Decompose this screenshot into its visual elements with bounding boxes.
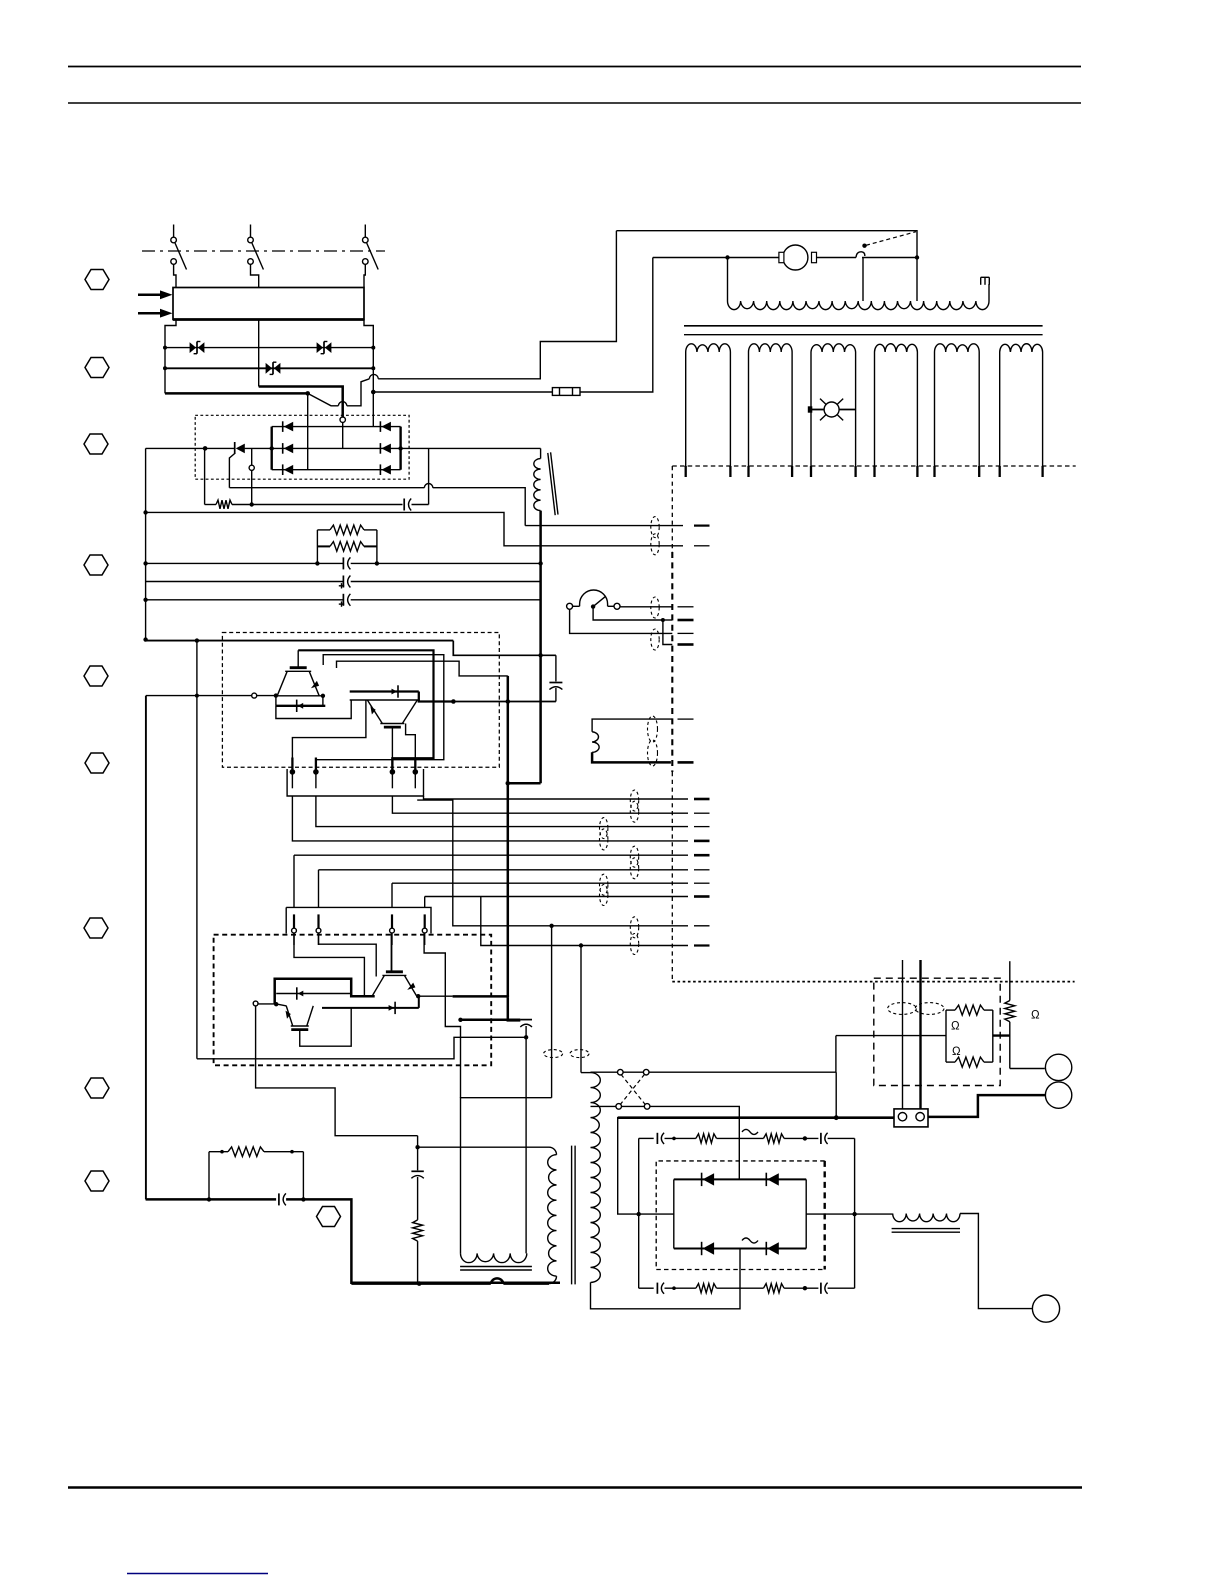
bus cap row 2 electrolytic	[146, 576, 541, 589]
bridge top edge	[674, 1178, 806, 1180]
bridge diode right row y=448.4	[380, 443, 391, 454]
wire cap2 top feed	[508, 997, 521, 1020]
hex reference flag 10	[317, 1207, 341, 1227]
wire lower link	[276, 700, 351, 719]
AC squiggle top	[742, 1129, 758, 1134]
output + path left	[618, 1118, 894, 1214]
twisted pair marker CT1	[648, 716, 658, 766]
current transformer CT1 primary coil	[534, 448, 541, 510]
snubber row bottom	[639, 1283, 855, 1294]
bridge diode left row y=448.4	[283, 443, 294, 454]
bundle wire 10 transformer drive B	[481, 897, 688, 946]
footer rule	[68, 1486, 1082, 1489]
bleed resistor vertical	[1005, 961, 1015, 1068]
hex reference flag 5	[84, 666, 108, 686]
PCB pin mark y=813.2	[694, 812, 710, 814]
rectifier dashed box	[656, 1161, 825, 1270]
PCB pin mark y=855.2	[694, 854, 710, 857]
parallel resistor R1	[317, 525, 377, 563]
PCB pin mark y=525.6	[694, 524, 710, 526]
input arrow 1	[138, 290, 173, 299]
wire pin1 route	[294, 933, 364, 996]
module2 gate input circle	[253, 1001, 278, 1006]
wire thermostat left to pin	[570, 609, 673, 633]
twisted pair marker primary	[544, 1050, 563, 1058]
nest thin to pin2	[316, 655, 444, 772]
bridge left rail	[271, 427, 273, 470]
wire Q3 left to pin1	[292, 700, 366, 771]
IGBT Q5 gate route	[300, 1008, 351, 1046]
bridge diode right row y=426.6	[380, 421, 391, 432]
PCB pin mark y=883.2	[694, 882, 710, 884]
wire W2 to fuse	[373, 391, 552, 393]
wire bottom phase into bridge	[307, 393, 309, 469]
bundle wire 7	[392, 882, 688, 884]
output CT2 coil	[461, 1253, 527, 1262]
control PCB dashed box left edge mid	[671, 552, 673, 772]
wire bus to module	[146, 640, 454, 642]
wire mid phase thick L	[259, 387, 343, 418]
footer link underline	[127, 1573, 268, 1575]
sensor wire B thick	[919, 960, 921, 1113]
wire thermostat right to pin	[620, 606, 672, 608]
sensor wire A thin	[902, 960, 904, 1113]
hex reference flag 3	[84, 434, 108, 454]
bus cap row 1	[146, 557, 543, 569]
bundle wire 8	[425, 896, 688, 898]
current sensor dashed box	[874, 978, 1000, 1085]
module1 gate input circle	[252, 693, 257, 698]
bridge rect rails	[674, 1179, 806, 1248]
winding end to plug	[988, 284, 990, 301]
control PCB dashed box left edge upper	[671, 466, 673, 552]
SCR Q1	[229, 442, 244, 488]
choke L1	[892, 1214, 960, 1233]
bridge diode right row y=469.7	[380, 464, 391, 475]
breaker mechanical link dash-dot	[142, 250, 385, 252]
aux winding 4	[875, 344, 918, 477]
breaker S1 pole 1	[171, 225, 187, 288]
wire pin3 to Q4 gate	[391, 933, 393, 971]
module1 thick output to cap	[419, 700, 453, 702]
IGBT Q2 gate nest thick to pin3	[298, 650, 433, 771]
aux winding 5	[935, 344, 980, 477]
transformer T1 core	[684, 325, 1043, 327]
node dots MOV rows	[163, 346, 167, 350]
wire bus corner to snubber cap top	[453, 641, 556, 656]
wire cap2 bottom tap	[197, 1037, 526, 1059]
bundle wire 6	[319, 869, 689, 871]
output terminal circle 2	[1045, 1082, 1071, 1108]
node dots bridge rails	[270, 446, 274, 450]
wire winding taps	[727, 258, 729, 302]
IGBT Q3 top rail	[350, 699, 419, 701]
aux winding 1	[686, 344, 731, 477]
RC snubber across SCR	[205, 448, 429, 510]
divider resistor pair	[946, 1005, 993, 1067]
wire terminal 2	[928, 1095, 1045, 1117]
wire SCR aux tap with connector circle	[249, 448, 254, 506]
fan winding	[728, 301, 990, 310]
hex reference flag 2	[85, 358, 109, 378]
wire gate feed vertical	[196, 641, 198, 1059]
output terminal circle 1	[1045, 1054, 1071, 1080]
parallel resistor R2	[317, 542, 377, 552]
wire fan mid bus	[653, 257, 779, 259]
aux winding 3	[811, 344, 856, 477]
IGBT module 1 dashed box	[222, 633, 499, 768]
PCB pin mark y=545.8	[694, 545, 710, 547]
bridge bottom edge	[674, 1248, 806, 1250]
bridge right rail	[399, 427, 401, 470]
thermostat TH1	[567, 590, 620, 609]
bundle wire 2	[392, 796, 688, 813]
left bus segment	[164, 348, 166, 394]
RC damper chain across secondary	[411, 1136, 423, 1284]
bridge diode left row y=469.7	[283, 464, 294, 475]
secondary top lead to bus	[835, 1072, 837, 1118]
varistor RV2	[317, 342, 332, 354]
varistor RV3	[266, 362, 281, 374]
left bus 2 upper	[145, 448, 147, 639]
bottom-left damper block	[146, 1193, 560, 1282]
hex reference flag 4	[84, 555, 108, 575]
sensor connector block	[894, 1109, 928, 1127]
diode D1	[276, 700, 325, 712]
T2 secondary winding	[418, 1147, 557, 1283]
wire Q3 collector to pin4	[406, 724, 416, 772]
wire module2 out B thick cap feed	[461, 1019, 521, 1022]
twisted pair marker sense	[651, 517, 659, 538]
X crossover plugs	[591, 1069, 837, 1109]
wire CT1 primary down thick	[539, 511, 542, 784]
PCB pin mark y=633.4	[678, 632, 694, 634]
varistor row 1 wire	[165, 347, 373, 349]
wire to terminal circle 1	[1010, 1068, 1045, 1070]
wire pin2 route	[319, 933, 377, 977]
wire secondary bottom lead with CT hop	[351, 1278, 549, 1283]
wire CT2 left lead	[461, 1098, 552, 1254]
CT2 core	[460, 1267, 532, 1271]
wire choke to terminal	[960, 1214, 1032, 1309]
snubber row top	[639, 1133, 855, 1144]
bundle wire 3	[316, 796, 688, 827]
twisted pair markers bundle	[630, 790, 638, 811]
bridge top row	[272, 426, 401, 428]
wire sense B (SCR gate return)	[525, 525, 683, 527]
CT1 core slanted	[548, 452, 558, 515]
aux winding 2	[749, 344, 793, 477]
breaker S1 pole 2	[248, 225, 264, 288]
PCB pin mark y=644.5	[678, 643, 694, 646]
wire fan top bus	[616, 231, 917, 258]
hex reference flag 8	[85, 1078, 109, 1098]
bus cap row 3 electrolytic	[146, 594, 541, 607]
node dot slant start	[305, 391, 310, 396]
wire bottom phase thick	[165, 392, 308, 395]
Q4 emitter node	[416, 994, 420, 998]
fan motor M1	[779, 245, 817, 270]
line filter box	[173, 288, 364, 320]
T2 primary bottom return	[591, 1249, 741, 1309]
wire filter out mid	[258, 320, 260, 387]
module2 connector pins	[292, 914, 297, 945]
breaker S1 pole 3	[363, 225, 379, 288]
header rule bottom	[68, 102, 1081, 104]
varistor RV1	[190, 342, 205, 354]
wire slant with hops	[308, 374, 379, 405]
IGBT Q5 lower (inverted)	[286, 1006, 314, 1030]
IGBT module 2 dashed box	[214, 935, 492, 1066]
bridge bottom row	[272, 469, 401, 471]
diode D4	[322, 1002, 419, 1014]
wire W2 fuse to fan	[580, 258, 653, 393]
inline connector circle	[340, 417, 345, 422]
module2 feed verticals	[293, 855, 295, 907]
svg-text:Ω: Ω	[952, 1046, 961, 1058]
module2 connector bracket	[285, 907, 287, 933]
PCB pin mark y=840.9	[694, 840, 710, 843]
T2 primary mid tap to bridge	[591, 1106, 740, 1179]
snubber capacitor C2	[520, 1020, 532, 1254]
PCB pin mark y=896.5	[694, 895, 710, 898]
PCB pin mark y=826.6	[694, 826, 710, 828]
PCB pin mark y=799	[694, 798, 710, 801]
PCB pin mark y=925.8	[694, 925, 710, 927]
svg-text:Ω: Ω	[1031, 1010, 1040, 1022]
IGBT Q3 lower (inverted)	[367, 700, 417, 727]
node dot	[203, 446, 208, 451]
snubber capacitor C1	[549, 655, 562, 701]
wire sense A	[146, 512, 683, 545]
CT1 secondary coil to PCB	[592, 719, 672, 762]
IGBT Q2 emitter rail	[276, 695, 323, 697]
pilot lamp PL1	[808, 399, 856, 421]
node dots left bus	[143, 510, 147, 514]
T2 core	[572, 1146, 576, 1285]
wire circle to Q5	[276, 1004, 286, 1006]
hex reference flag 9	[85, 1171, 109, 1191]
divider mid wire	[836, 1035, 946, 1037]
output terminal circle 3	[1032, 1295, 1059, 1322]
left bus 2 lower	[145, 696, 147, 1200]
PCB pin mark y=719.1	[678, 718, 694, 720]
parallel resistor R3	[209, 1147, 303, 1200]
snubber rail right	[854, 1138, 856, 1288]
AC squiggle bottom	[742, 1238, 758, 1243]
control PCB dashed box bottom edge	[672, 981, 1074, 983]
rectifier diodes	[702, 1173, 715, 1186]
PCB pin mark y=762.4	[678, 761, 694, 764]
wire W1 to fan circuit	[378, 231, 616, 379]
control PCB dashed box left edge lower	[671, 772, 673, 982]
IGBT Q2 upper	[277, 668, 319, 696]
IGBT Q3 gate lead to pin3 node	[391, 727, 393, 758]
nest thin exit to DC bus	[337, 661, 508, 676]
input arrow 2	[138, 309, 173, 318]
right bus segment	[372, 348, 374, 427]
wire thermostat center to pins	[593, 607, 672, 645]
hex reference flag 7	[84, 918, 108, 938]
wire pin4 route	[424, 933, 460, 1098]
wire SCR gate to control	[229, 484, 525, 526]
varistor row 2 wire	[165, 367, 373, 369]
thick collector bracket	[275, 979, 375, 1005]
output bus thick overlay	[618, 1116, 894, 1119]
plug P1	[981, 277, 990, 285]
wire filter out right	[364, 320, 373, 348]
diode D2 thick	[350, 685, 419, 697]
wire to module1 gate circle	[146, 695, 252, 697]
IGBT Q4 upper	[372, 972, 416, 996]
PCB pin mark y=869.8	[694, 869, 710, 871]
svg-text:Ω: Ω	[951, 1021, 960, 1033]
aux winding 6	[1000, 344, 1043, 477]
node dot W2 tap	[371, 390, 376, 395]
wire module2 bottom-left exit	[256, 1006, 418, 1136]
diode D3	[276, 987, 351, 999]
wire DC bus down	[507, 676, 510, 997]
wire DC bus jog	[508, 782, 541, 785]
twisted pair marker thermostat	[651, 597, 659, 618]
wire filter out left	[165, 320, 176, 348]
primary drive wire A	[551, 926, 553, 1098]
hex reference flag 6	[85, 753, 109, 773]
module1 connector bracket	[287, 769, 423, 796]
wire circle to bridge mid row	[342, 422, 344, 448]
snubber rail left	[638, 1138, 640, 1288]
bundle wire 9 transformer drive A	[417, 800, 688, 926]
fuse F1	[552, 388, 580, 396]
header rule top	[68, 66, 1081, 68]
main transformer T2 primary	[581, 1073, 600, 1283]
module1 connector pins	[290, 758, 296, 789]
PCB pin mark y=606.8	[678, 606, 694, 608]
bridge diode left row y=426.6	[283, 421, 294, 432]
PCB pin mark y=945.5	[694, 944, 710, 946]
wire motor to switch	[817, 257, 857, 259]
node dots fan	[725, 255, 729, 259]
control PCB dashed box top edge	[672, 465, 1075, 467]
sensor toroid dashed ellipses	[888, 1003, 944, 1015]
output right to choke	[806, 1213, 893, 1215]
bundle wire 5	[294, 854, 688, 856]
centrifugal switch	[856, 232, 917, 258]
primary drive wire B	[580, 946, 582, 1073]
PCB pin mark y=620	[678, 619, 694, 622]
bundle wire 1	[424, 796, 689, 799]
wire module2 out A thick	[418, 995, 452, 997]
input rectifier dashed box	[195, 415, 409, 479]
hex reference flag 1	[85, 270, 109, 290]
wire divider down to bus	[835, 1036, 837, 1073]
wire main AC line	[146, 447, 235, 449]
bundle wire 4	[292, 796, 688, 841]
